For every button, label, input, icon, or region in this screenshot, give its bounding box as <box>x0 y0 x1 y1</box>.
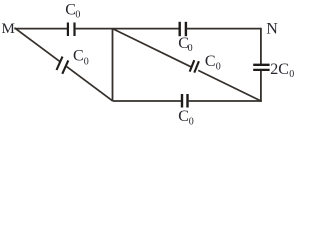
capacitor 2C0 plates <box>253 65 269 70</box>
wire right rail upper segment (N down to 2C0) <box>260 28 262 64</box>
svg-text:C: C <box>73 48 84 65</box>
wire top rail left segment (M to C0 plate) <box>15 28 68 30</box>
svg-text:0: 0 <box>84 56 89 67</box>
svg-text:0: 0 <box>189 117 194 128</box>
capacitor C0 on M-diagonal plates <box>57 57 69 74</box>
svg-text:0: 0 <box>75 10 80 21</box>
capacitor C0 top-right plates <box>180 22 186 36</box>
svg-text:0: 0 <box>289 69 294 80</box>
svg-text:C: C <box>178 108 189 125</box>
capacitor C0 top-left plates <box>68 23 75 37</box>
svg-text:M: M <box>2 21 15 37</box>
wire top rail right segment (C0 to N corner) <box>186 28 261 30</box>
svg-text:0: 0 <box>188 43 193 54</box>
wire diagonal top junction to bottom-right corner, upper segment <box>113 29 191 67</box>
wire diagonal M to bottom junction, upper segment <box>15 28 60 62</box>
wire top rail middle segment (C0 to C0) <box>75 28 180 30</box>
wire diagonal M to bottom junction, lower segment <box>67 67 113 101</box>
wire diagonal top junction to bottom-right corner, lower segment <box>198 70 261 101</box>
svg-text:C: C <box>205 53 216 70</box>
capacitor C0 on mid-diagonal plates <box>190 60 199 72</box>
svg-text:2C: 2C <box>270 61 289 78</box>
wire mid vertical (top junction to bottom junction) <box>112 29 114 101</box>
node M label <box>2 21 15 37</box>
svg-text:C: C <box>65 2 76 19</box>
wire right rail lower segment (2C0 to bottom corner) <box>260 71 262 102</box>
node N label <box>266 21 278 38</box>
svg-text:N: N <box>266 21 278 38</box>
label C0 on M-diagonal <box>73 48 89 68</box>
capacitor C0 bottom plates <box>182 94 188 108</box>
label C0 bottom <box>178 108 194 128</box>
label C0 on mid-diagonal <box>205 53 221 73</box>
wire bottom rail left segment (junction to C0) <box>113 100 182 102</box>
svg-text:0: 0 <box>216 62 221 73</box>
wire bottom rail right segment (C0 to bottom-right corner) <box>188 100 262 102</box>
label 2C0 <box>270 61 294 80</box>
label C0 top-left <box>65 2 80 21</box>
label C0 top-right <box>178 35 192 54</box>
